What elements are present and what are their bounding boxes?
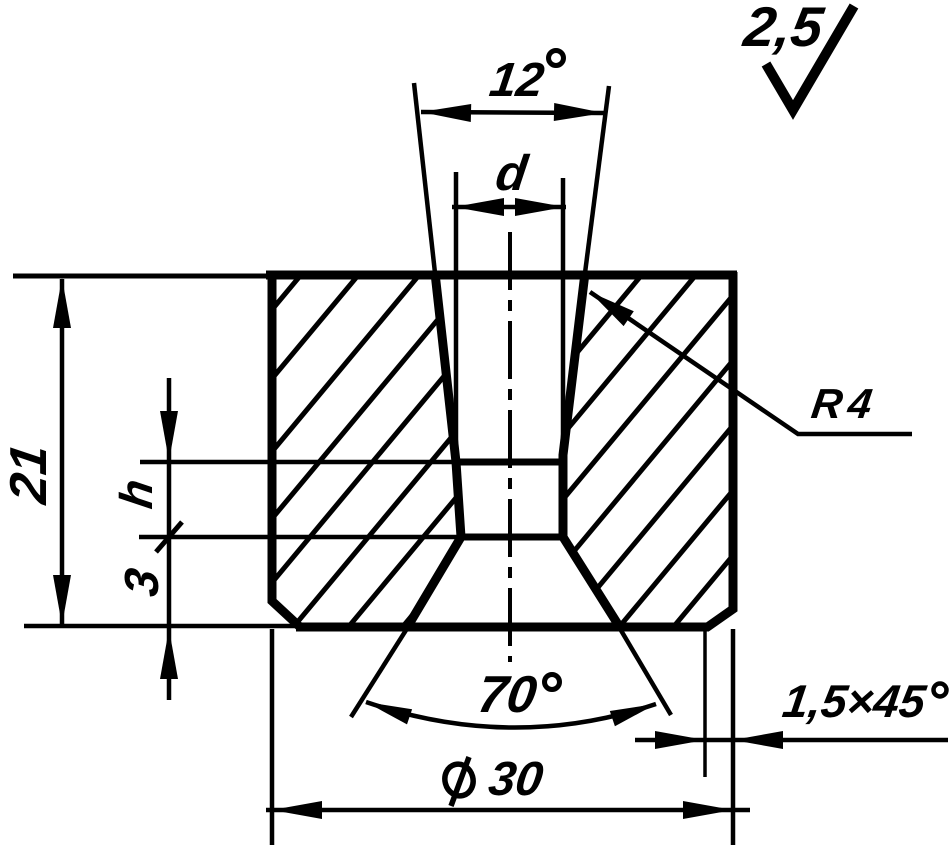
svg-text:2,5: 2,5 (739, 0, 827, 58)
svg-text:12: 12 (486, 53, 547, 107)
svg-text:21: 21 (0, 441, 58, 508)
svg-text:1,5×45: 1,5×45 (780, 675, 931, 727)
svg-text:30: 30 (485, 752, 546, 806)
svg-text:70: 70 (474, 666, 540, 724)
svg-text:R4: R4 (809, 380, 881, 427)
